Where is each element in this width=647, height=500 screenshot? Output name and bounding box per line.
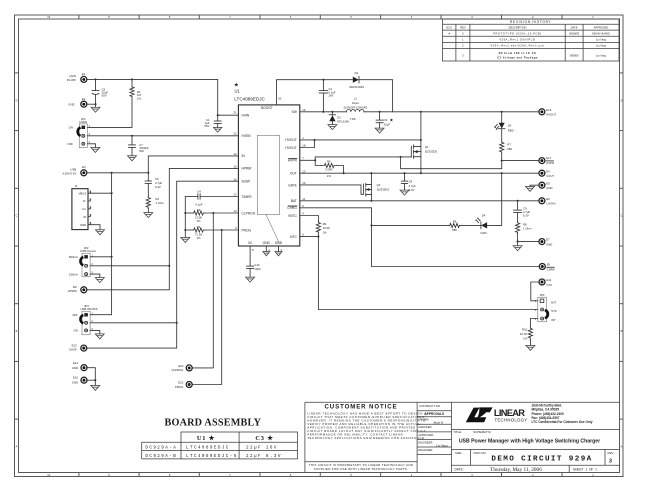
svg-text:VBUS: VBUS xyxy=(79,191,87,195)
svg-text:E11: E11 xyxy=(546,278,551,282)
svg-text:GND: GND xyxy=(546,242,552,246)
capacitor C5 4.7uF 6.3V xyxy=(145,173,162,197)
svg-text:E7: E7 xyxy=(546,238,550,242)
svg-text:22µF 16V: 22µF 16V xyxy=(246,446,278,451)
svg-text:KEVIN HUANG: KEVIN HUANG xyxy=(592,31,610,35)
terminal E13 SUSP xyxy=(69,343,87,351)
svg-text:13: 13 xyxy=(302,169,306,173)
resistor R9 10.0K 1% xyxy=(300,216,330,237)
capacitor C6 22uF 50V xyxy=(92,79,108,104)
svg-text:BOOST: BOOST xyxy=(261,106,272,110)
svg-text:50V: 50V xyxy=(102,94,107,98)
svg-text:U1 ★: U1 ★ xyxy=(197,435,215,442)
svg-text:1%: 1% xyxy=(137,97,142,101)
diode D3 RED LED xyxy=(495,112,514,141)
svg-text:10µH: 10µH xyxy=(352,101,359,105)
svg-text:DFLS160: DFLS160 xyxy=(337,120,349,124)
svg-text:10.0K: 10.0K xyxy=(520,332,527,336)
svg-text:CHECKED:: CHECKED: xyxy=(418,425,432,429)
svg-text:DWG NO.: DWG NO. xyxy=(474,451,487,455)
svg-text:Thursday, May 11, 2006: Thursday, May 11, 2006 xyxy=(490,467,542,473)
terminal E3 USB xyxy=(62,165,86,176)
wire R2 to ground xyxy=(144,208,153,217)
inductor L1 10uH SLF6028T-100M1R3 xyxy=(343,97,367,121)
svg-text:INT: INT xyxy=(551,318,556,322)
svg-text:Liu Yang: Liu Yang xyxy=(435,443,448,447)
svg-text:HVEN: HVEN xyxy=(242,134,252,138)
svg-text:20: 20 xyxy=(278,97,282,101)
wire J1 VBUS to net xyxy=(90,192,112,194)
svg-text:SCHEMATIC: SCHEMATIC xyxy=(473,430,492,434)
wire IN net xyxy=(148,156,238,173)
terminal E17 HVPR xyxy=(539,156,554,165)
svg-text:10: 10 xyxy=(302,181,306,185)
svg-text:USB Power Manager with High Vo: USB Power Manager with High Voltage Swit… xyxy=(459,439,600,445)
svg-text:100mA: 100mA xyxy=(69,272,78,276)
svg-text:1%: 1% xyxy=(323,231,328,235)
svg-text:NTC: NTC xyxy=(551,309,557,313)
ground IC GND pins xyxy=(263,246,282,256)
wire J1 GND to ground xyxy=(90,225,104,235)
wire VBUS vertical xyxy=(111,173,113,315)
terminal E9 CHRG xyxy=(539,263,555,272)
svg-text:090906: 090906 xyxy=(570,53,579,57)
svg-text:11: 11 xyxy=(302,197,305,201)
svg-text:GND: GND xyxy=(275,241,283,245)
svg-text:USB Current: USB Current xyxy=(80,249,96,253)
svg-text:GND: GND xyxy=(72,366,78,370)
svg-text:★: ★ xyxy=(234,81,239,88)
svg-text:1 Ohm: 1 Ohm xyxy=(523,226,532,230)
wire R10 to ground xyxy=(526,339,535,350)
resistor R10 10.0K 1% xyxy=(520,319,538,341)
svg-text:E17: E17 xyxy=(546,156,551,160)
svg-text:BAT: BAT xyxy=(291,199,297,203)
svg-text:NTC: NTC xyxy=(290,235,297,239)
capacitor C8 4.7uF 6.3V xyxy=(400,173,416,195)
wire HVPR net xyxy=(300,156,539,169)
terminal E8 HPWR xyxy=(68,285,87,293)
svg-text:VC: VC xyxy=(248,241,253,245)
svg-text:3: 3 xyxy=(609,459,612,465)
transistor Q1 Si2333DS xyxy=(411,145,437,158)
svg-text:06/08/05: 06/08/05 xyxy=(569,31,580,35)
diode D2 SD101AWS xyxy=(349,71,392,112)
resistor R1 1M 1% xyxy=(130,79,142,104)
wire JP3 pin1 to VBUS vertical xyxy=(90,314,112,316)
svg-text:DC929A-B: DC929A-B xyxy=(145,454,177,459)
terminal E16 HVOUT xyxy=(539,108,556,117)
svg-text:E2: E2 xyxy=(82,97,86,101)
svg-text:CHRG: CHRG xyxy=(547,267,555,271)
terminal E11 NTC xyxy=(539,278,552,287)
svg-text:E1: E1 xyxy=(82,72,86,76)
capacitor C2 0.1uF 16V xyxy=(319,80,336,112)
svg-text:LTC4089EDJC: LTC4089EDJC xyxy=(234,96,265,101)
svg-text:TECHNOLOGY: TECHNOLOGY xyxy=(495,418,528,423)
svg-text:GND: GND xyxy=(68,102,74,106)
svg-text:6V-36V: 6V-36V xyxy=(67,78,76,82)
wire JP2 pin2 to HPWR xyxy=(90,265,169,267)
wire PROG to E12 xyxy=(192,230,221,385)
svg-text:1%: 1% xyxy=(523,336,528,340)
svg-text:6.3V: 6.3V xyxy=(409,188,415,192)
svg-text:SLF6028T-100M1R3: SLF6028T-100M1R3 xyxy=(343,105,367,109)
transistor Q2 Si2333DS xyxy=(363,183,389,196)
wire JP2 pin1 to VBUS xyxy=(90,256,113,258)
svg-text:CONTRACT NO.: CONTRACT NO. xyxy=(419,404,441,408)
svg-text:HPWR: HPWR xyxy=(68,289,77,293)
svg-text:OUT: OUT xyxy=(290,172,297,176)
svg-text:E3: E3 xyxy=(82,165,86,169)
wire HVOUT pin rows xyxy=(300,139,422,148)
svg-text:4.35V-5.5V: 4.35V-5.5V xyxy=(62,171,76,175)
wire CLPROG to E10 xyxy=(192,213,213,368)
wire E14 E15 to ground xyxy=(87,368,100,391)
resistor R5 1.00K 1% xyxy=(315,160,343,178)
board assembly table xyxy=(142,417,298,459)
svg-text:TIMER: TIMER xyxy=(242,195,253,199)
svg-text:EXT: EXT xyxy=(551,300,557,304)
svg-text:LTC4089EDJC-5: LTC4089EDJC-5 xyxy=(186,454,238,459)
svg-text:R6: R6 xyxy=(453,220,457,224)
svg-text:GATE: GATE xyxy=(288,183,297,187)
svg-text:E12: E12 xyxy=(178,380,183,384)
wire JP2 pin3 to ground xyxy=(90,274,104,283)
svg-text:22: 22 xyxy=(233,132,237,136)
jumper JP1 HVEN xyxy=(67,117,90,148)
svg-text:ON: ON xyxy=(69,126,73,130)
svg-text:DATE:: DATE: xyxy=(455,467,464,471)
jumper JP3 USB ON/OFF xyxy=(72,304,98,335)
svg-text:E5: E5 xyxy=(546,181,550,185)
svg-text:16V: 16V xyxy=(328,94,333,98)
op-amp U1 LTC4089EDJC IC body xyxy=(233,81,305,252)
wire HVEN net xyxy=(87,135,238,137)
svg-text:929A_Rev2.dsn/929A_Rev2.pcb: 929A_Rev2.dsn/929A_Rev2.pcb xyxy=(491,44,545,48)
svg-text:REV: REV xyxy=(608,451,614,455)
svg-text:TECHNOLOGY APPLICATIONS ENGINE: TECHNOLOGY APPLICATIONS ENGINEERING FOR … xyxy=(307,436,426,440)
svg-text:Li-ION+: Li-ION+ xyxy=(546,202,556,206)
svg-text:D: D xyxy=(16,99,18,103)
diode D4 GRN LED xyxy=(460,173,501,235)
svg-text:12: 12 xyxy=(233,152,237,156)
svg-text:680: 680 xyxy=(452,228,457,232)
svg-text:E16: E16 xyxy=(546,108,551,112)
svg-text:Q2: Q2 xyxy=(377,183,381,187)
wire NTC net xyxy=(300,236,538,310)
svg-text:500mA: 500mA xyxy=(69,255,78,259)
svg-text:929A_Rev1.DSN/PCB: 929A_Rev1.DSN/PCB xyxy=(499,38,535,42)
resistor R2 1 Ohm xyxy=(146,196,164,208)
svg-text:E10: E10 xyxy=(178,364,183,368)
svg-text:0.1µF: 0.1µF xyxy=(195,202,202,206)
resistor R4 71.5K 1% xyxy=(185,225,238,240)
svg-text:SW: SW xyxy=(292,110,298,114)
svg-text:22µF 6.3V: 22µF 6.3V xyxy=(246,454,282,459)
svg-text:1%: 1% xyxy=(327,174,332,178)
title block xyxy=(305,402,620,473)
svg-text:HVOUT: HVOUT xyxy=(285,138,296,142)
svg-text:Liu Yang: Liu Yang xyxy=(596,44,607,48)
svg-text:PROTOTYPE (929A_16.PCB): PROTOTYPE (929A_16.PCB) xyxy=(493,31,542,35)
svg-text:1%: 1% xyxy=(196,236,201,240)
wire USB rail xyxy=(87,172,149,174)
terminal E6 Li-ION+ xyxy=(539,197,556,206)
svg-text:ON: ON xyxy=(74,329,78,333)
svg-text:E9: E9 xyxy=(547,263,551,267)
svg-text:CLPROG: CLPROG xyxy=(242,211,256,215)
svg-text:USB ON/OFF: USB ON/OFF xyxy=(80,307,97,311)
svg-text:HVOUT: HVOUT xyxy=(285,146,296,150)
svg-text:C3 ★: C3 ★ xyxy=(255,435,273,442)
svg-text:LTC Confidential-For Customer: LTC Confidential-For Customer Use Only xyxy=(532,420,593,424)
wire BAT row xyxy=(300,200,539,202)
svg-text:Liu Yang: Liu Yang xyxy=(596,38,607,42)
svg-text:BOARD ASSEMBLY: BOARD ASSEMBLY xyxy=(164,417,261,428)
wire SW / HVOUT line xyxy=(300,111,539,113)
diode D1 DFLS160 xyxy=(328,112,350,130)
svg-text:VNTC: VNTC xyxy=(288,214,298,218)
svg-text:R6 From 10K to 1K 1%: R6 From 10K to 1K 1% xyxy=(499,51,537,55)
svg-text:E15: E15 xyxy=(73,376,78,380)
svg-text:U1: U1 xyxy=(235,89,241,94)
svg-text:SUSP: SUSP xyxy=(69,347,77,351)
svg-text:D4: D4 xyxy=(482,213,486,217)
wire HPWR net xyxy=(87,168,238,289)
svg-text:ID: ID xyxy=(83,215,86,219)
svg-text:C: C xyxy=(16,214,18,218)
resistor R8 1 Ohm xyxy=(515,222,532,234)
svg-text:RED: RED xyxy=(508,128,514,132)
svg-text:SIZE: SIZE xyxy=(455,451,461,455)
svg-text:E4: E4 xyxy=(546,169,550,173)
jumper JP2 USB Current xyxy=(69,246,96,277)
svg-text:C4: C4 xyxy=(197,190,201,194)
wire CHRG net xyxy=(300,208,539,267)
wire JP1 pin3 to ground xyxy=(87,144,100,153)
terminal E5 GND xyxy=(526,181,553,191)
svg-text:A: A xyxy=(621,445,623,449)
svg-text:R5: R5 xyxy=(327,160,331,164)
svg-text:DESIGNER:: DESIGNER: xyxy=(418,448,433,452)
svg-text:A: A xyxy=(16,445,18,449)
svg-text:ENGINEER:: ENGINEER: xyxy=(418,440,433,444)
svg-text:LTC4089EDJC: LTC4089EDJC xyxy=(186,446,230,451)
svg-text:HVPR: HVPR xyxy=(288,159,298,163)
svg-text:SD101AWS: SD101AWS xyxy=(349,85,364,89)
svg-text:1.00K: 1.00K xyxy=(325,168,332,172)
svg-text:18: 18 xyxy=(302,144,306,148)
svg-text:SUPPLIED FOR USE WITH LINEAR T: SUPPLIED FOR USE WITH LINEAR TECHNOLOGY … xyxy=(314,467,408,471)
svg-text:CHRG: CHRG xyxy=(287,206,297,210)
connector J1 USB xyxy=(72,184,92,230)
svg-text:D2: D2 xyxy=(355,71,359,75)
svg-text:PROG: PROG xyxy=(175,385,183,389)
terminal E7 GND xyxy=(539,238,552,247)
wire HVIN rail xyxy=(87,78,238,116)
svg-text:GRN: GRN xyxy=(480,231,486,235)
svg-text:JP4: JP4 xyxy=(540,293,545,297)
svg-text:6.3V: 6.3V xyxy=(155,185,161,189)
svg-text:HVOUT: HVOUT xyxy=(546,113,556,117)
svg-text:NTC: NTC xyxy=(546,283,552,287)
svg-text:CLPROG: CLPROG xyxy=(171,368,183,372)
svg-text:SHEET 1 OF 1: SHEET 1 OF 1 xyxy=(573,467,597,471)
wire timer ground branch xyxy=(181,197,190,243)
svg-text:GND: GND xyxy=(546,186,552,190)
wire E11 to JP4 pin1 xyxy=(531,282,539,301)
wire BOOST rail xyxy=(277,79,353,105)
svg-text:C: C xyxy=(621,214,623,218)
svg-text:GND: GND xyxy=(80,223,86,227)
capacitor C10 10pF xyxy=(246,246,261,282)
svg-text:15: 15 xyxy=(233,165,237,169)
jumper JP4 NTC select xyxy=(535,293,557,322)
svg-text:B: B xyxy=(621,329,623,333)
svg-text:C3 Voltage and Package: C3 Voltage and Package xyxy=(497,55,538,59)
svg-text:22µF: 22µF xyxy=(384,122,391,126)
terminal E10 CLPROG xyxy=(171,364,192,372)
svg-text:10pF: 10pF xyxy=(254,267,261,271)
svg-text:Liu Yang: Liu Yang xyxy=(596,53,607,57)
svg-text:ECO: ECO xyxy=(446,25,452,29)
terminal E15 GND xyxy=(72,376,87,385)
svg-text:DEMO CIRCUIT 929A: DEMO CIRCUIT 929A xyxy=(491,455,592,463)
svg-text:REV: REV xyxy=(460,25,466,29)
svg-text:HVPR: HVPR xyxy=(546,161,554,165)
terminal E14 GND xyxy=(72,361,87,371)
svg-text:APPROVED: APPROVED xyxy=(594,25,609,29)
capacitor C1 1uF 50V xyxy=(205,115,222,132)
terminal E4 VOUT xyxy=(539,169,554,178)
resistor R6 680 xyxy=(372,220,461,232)
capacitor C4 0.1uF xyxy=(185,190,238,207)
svg-text:21: 21 xyxy=(233,110,237,114)
svg-text:6.3V: 6.3V xyxy=(523,214,529,218)
wire GATE net xyxy=(300,185,364,194)
svg-text:DC929A-A: DC929A-A xyxy=(145,446,177,451)
capacitor C9 4.7uF 6.3V xyxy=(514,201,531,222)
svg-text:J1: J1 xyxy=(75,184,78,188)
wire Q2 vertical to BAT xyxy=(370,173,372,202)
terminal E2 GND xyxy=(68,97,87,107)
terminal E12 PROG xyxy=(175,380,192,388)
resistor R3 2.10K 1% xyxy=(185,208,238,223)
svg-text:D+: D+ xyxy=(83,207,87,211)
svg-text:OFF: OFF xyxy=(72,313,78,317)
capacitor C3 22uF xyxy=(375,112,394,133)
wire JP3 pin3 to ground xyxy=(90,330,104,339)
svg-text:TITLE:: TITLE: xyxy=(453,430,462,434)
revision history table xyxy=(443,19,620,61)
terminal E1 HVIN xyxy=(67,72,87,83)
svg-text:R3: R3 xyxy=(197,208,201,212)
svg-text:DRAWN:: DRAWN: xyxy=(418,418,429,422)
svg-text:1%: 1% xyxy=(196,219,201,223)
svg-text:CUSTOMER NOTICE: CUSTOMER NOTICE xyxy=(325,404,398,411)
resistor R7 680 xyxy=(500,141,513,161)
svg-text:R4: R4 xyxy=(197,225,201,229)
svg-text:GND: GND xyxy=(263,241,271,245)
svg-text:19: 19 xyxy=(302,108,306,112)
svg-text:680: 680 xyxy=(507,147,512,151)
svg-text:TDK: TDK xyxy=(350,117,356,121)
svg-text:APPROVALS: APPROVALS xyxy=(424,412,444,416)
svg-text:VOUT: VOUT xyxy=(546,174,554,178)
svg-text:1 Ohm: 1 Ohm xyxy=(156,201,165,205)
svg-text:DATE: DATE xyxy=(571,25,578,29)
svg-text:REVISION HISTORY: REVISION HISTORY xyxy=(510,20,552,24)
svg-text:16: 16 xyxy=(233,177,237,181)
svg-text:DESCRIPTION: DESCRIPTION xyxy=(509,25,527,29)
svg-text:50V: 50V xyxy=(205,124,210,128)
svg-text:HVEN: HVEN xyxy=(79,120,87,124)
svg-text:D3: D3 xyxy=(508,123,512,127)
svg-text:OFF: OFF xyxy=(67,142,73,146)
wire SUSP net xyxy=(87,181,238,348)
wire JP3 pin2 to SUSP xyxy=(90,322,177,324)
svg-text:HVIN: HVIN xyxy=(242,114,250,118)
svg-text:B: B xyxy=(16,329,18,333)
wire Q1 drain vertical xyxy=(420,112,422,173)
svg-text:E14: E14 xyxy=(73,361,78,365)
capacitor C7 1000pF 50V xyxy=(128,136,149,161)
svg-text:GND: GND xyxy=(72,380,78,384)
svg-text:50V: 50V xyxy=(139,149,144,153)
svg-text:Q1: Q1 xyxy=(425,145,429,149)
svg-text:APPROVED:: APPROVED: xyxy=(418,433,434,437)
svg-text:17: 17 xyxy=(233,193,237,197)
wire R1 to JP1 pin1 xyxy=(87,104,132,127)
svg-text:Si2333DS: Si2333DS xyxy=(377,187,390,191)
svg-text:D-: D- xyxy=(83,199,86,203)
wire OUT row xyxy=(300,172,539,174)
svg-text:14: 14 xyxy=(233,209,237,213)
wire E2 to ground xyxy=(87,103,100,112)
svg-text:Si2333DS: Si2333DS xyxy=(425,150,438,154)
svg-text:SUSP: SUSP xyxy=(242,180,251,184)
svg-text:HPWR: HPWR xyxy=(242,167,253,171)
svg-text:E6: E6 xyxy=(546,197,550,201)
wire R8 to E7 and ground xyxy=(513,234,539,251)
svg-text:Rudy B: Rudy B xyxy=(433,420,444,424)
svg-text:R10: R10 xyxy=(522,327,528,331)
svg-text:D: D xyxy=(621,99,623,103)
Linear Technology logo xyxy=(466,407,528,422)
svg-text:PROG: PROG xyxy=(242,228,252,232)
